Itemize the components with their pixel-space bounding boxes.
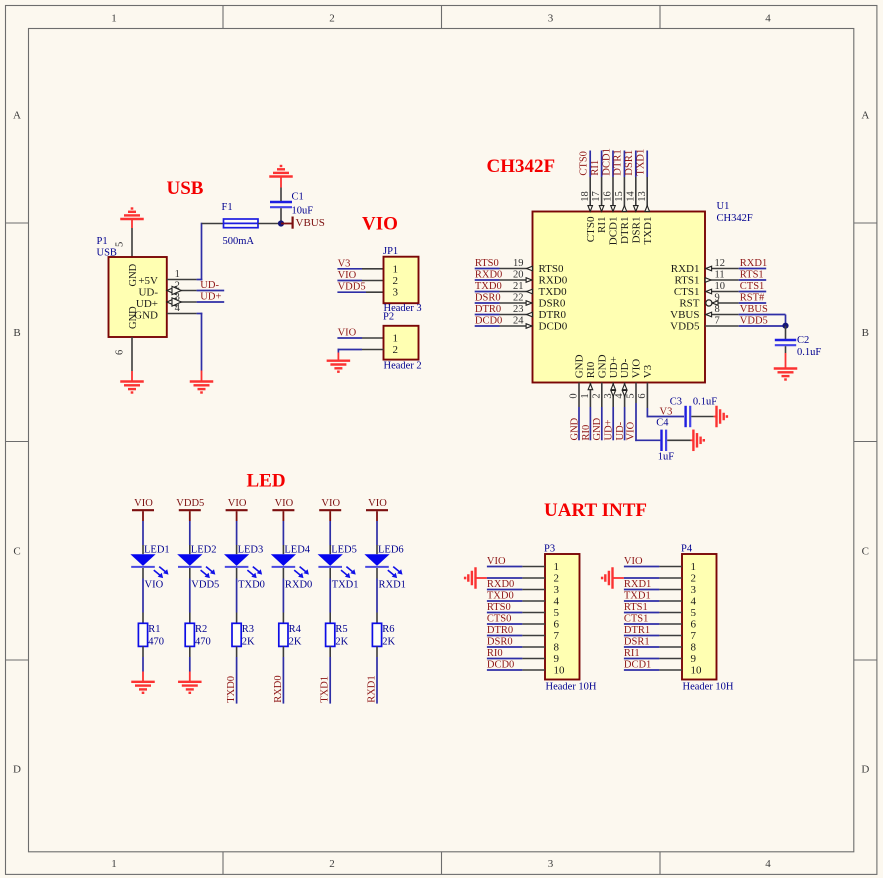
svg-text:11: 11: [715, 270, 725, 281]
svg-text:UD-: UD-: [619, 358, 631, 378]
svg-text:17: 17: [591, 191, 602, 202]
svg-text:3: 3: [554, 584, 560, 596]
wire LED3 to R3: [236, 568, 238, 579]
wire VIO to LED6: [376, 521, 378, 545]
svg-text:VIO: VIO: [368, 498, 387, 509]
svg-text:5: 5: [554, 607, 560, 619]
svg-text:R5: R5: [335, 624, 347, 635]
svg-text:UD+: UD+: [608, 356, 620, 378]
svg-text:DCD0: DCD0: [487, 659, 514, 670]
svg-text:RXD0: RXD0: [539, 275, 568, 287]
svg-text:RTS0: RTS0: [487, 602, 511, 613]
svg-text:CTS1: CTS1: [740, 281, 765, 292]
svg-text:V3: V3: [642, 364, 654, 378]
svg-text:1: 1: [691, 561, 697, 573]
svg-text:RI1: RI1: [590, 160, 601, 176]
svg-text:6: 6: [114, 350, 125, 355]
svg-text:1uF: 1uF: [658, 451, 675, 462]
svg-text:RTS1: RTS1: [674, 275, 699, 287]
svg-text:RI0: RI0: [585, 361, 597, 378]
svg-text:CTS0: CTS0: [579, 151, 590, 176]
svg-text:TXD0: TXD0: [238, 580, 265, 591]
svg-text:D: D: [861, 763, 869, 775]
svg-text:VIO: VIO: [487, 556, 506, 567]
svg-text:DSR0: DSR0: [475, 292, 501, 303]
svg-text:0.1uF: 0.1uF: [693, 397, 717, 408]
svg-text:6: 6: [637, 393, 648, 398]
svg-text:5: 5: [114, 242, 125, 247]
svg-text:VIO: VIO: [625, 421, 636, 440]
svg-text:CTS0: CTS0: [585, 216, 597, 242]
svg-text:3: 3: [175, 292, 180, 303]
svg-text:7: 7: [554, 630, 560, 642]
svg-text:C: C: [13, 545, 20, 557]
svg-text:2: 2: [393, 344, 399, 356]
svg-text:14: 14: [625, 191, 636, 202]
svg-text:RXD0: RXD0: [285, 580, 312, 591]
svg-text:UD+: UD+: [136, 298, 158, 310]
svg-text:DCD1: DCD1: [601, 148, 612, 175]
svg-text:4: 4: [765, 13, 771, 25]
svg-text:2: 2: [329, 13, 335, 25]
svg-text:22: 22: [513, 293, 524, 304]
svg-text:7: 7: [715, 316, 720, 327]
svg-text:1: 1: [175, 269, 180, 280]
svg-text:P1: P1: [97, 236, 108, 247]
svg-text:4: 4: [765, 858, 771, 870]
capacitor C1 10uF: [270, 201, 292, 203]
svg-text:2: 2: [591, 393, 602, 398]
wire VIO to JP1.2: [337, 280, 362, 282]
wire VIO to C4: [635, 439, 660, 441]
svg-text:GND: GND: [569, 417, 580, 440]
wire VBUS pin8 corner down to VDD5 node: [785, 315, 787, 326]
svg-text:12: 12: [715, 258, 726, 269]
wire VIO to LED3: [236, 521, 238, 545]
svg-text:3: 3: [691, 584, 697, 596]
svg-text:21: 21: [513, 281, 524, 292]
svg-text:9: 9: [691, 653, 697, 665]
svg-text:RI1: RI1: [624, 648, 640, 659]
svg-text:1: 1: [111, 858, 117, 870]
svg-text:7: 7: [691, 630, 697, 642]
svg-text:TXD1: TXD1: [642, 217, 654, 245]
svg-text:2: 2: [691, 573, 697, 585]
P1 pin 3 wire UD+: [167, 301, 197, 303]
svg-text:R2: R2: [195, 624, 207, 635]
power port VBUS: [281, 223, 292, 225]
svg-text:TXD0: TXD0: [539, 286, 568, 298]
capacitor C3 0.1uF: [684, 406, 686, 427]
svg-text:VIO: VIO: [631, 359, 643, 379]
svg-text:8: 8: [715, 304, 720, 315]
wire below R1: [142, 646, 144, 657]
ground below C2: [785, 353, 787, 369]
svg-text:470: 470: [195, 636, 211, 647]
svg-text:RST: RST: [679, 298, 699, 310]
svg-text:1: 1: [111, 13, 117, 25]
svg-text:B: B: [862, 327, 869, 339]
svg-text:LED5: LED5: [331, 544, 357, 555]
svg-text:DTR1: DTR1: [613, 149, 624, 175]
svg-text:DTR1: DTR1: [624, 625, 650, 636]
svg-text:10: 10: [554, 665, 566, 677]
svg-text:1: 1: [393, 263, 399, 275]
ground at P1 pin 4: [190, 380, 214, 382]
wire VDD5 to LED2: [189, 521, 191, 545]
svg-text:+5V: +5V: [138, 275, 158, 287]
svg-text:6: 6: [691, 619, 697, 631]
svg-text:RTS1: RTS1: [624, 602, 648, 613]
svg-text:C2: C2: [797, 335, 809, 346]
svg-text:LED: LED: [247, 471, 286, 492]
svg-text:RXD1: RXD1: [379, 580, 406, 591]
svg-text:VBUS: VBUS: [670, 309, 699, 321]
svg-text:VIO: VIO: [228, 498, 247, 509]
svg-text:RI0: RI0: [581, 425, 592, 441]
svg-text:2: 2: [329, 858, 335, 870]
svg-text:DTR1: DTR1: [619, 217, 631, 245]
svg-text:DCD0: DCD0: [539, 321, 568, 333]
wire VIO to LED4: [282, 521, 284, 545]
svg-text:4: 4: [691, 596, 697, 608]
svg-text:1: 1: [580, 393, 591, 398]
svg-text:V3: V3: [338, 258, 351, 269]
svg-text:470: 470: [148, 636, 164, 647]
svg-text:RST#: RST#: [740, 293, 765, 304]
wire below R2: [189, 646, 191, 657]
svg-text:1: 1: [393, 333, 399, 345]
svg-text:RTS1: RTS1: [740, 270, 764, 281]
svg-text:2K: 2K: [382, 636, 395, 647]
svg-text:0: 0: [569, 393, 580, 398]
svg-text:19: 19: [513, 258, 524, 269]
resistor R2 470: [185, 623, 194, 646]
wire VDD5 to JP1.3: [337, 291, 366, 293]
ground at P3 pin 2: [474, 567, 476, 589]
svg-text:CTS1: CTS1: [674, 286, 700, 298]
ground below R1: [131, 681, 155, 683]
svg-text:2K: 2K: [242, 636, 255, 647]
svg-text:VDD5: VDD5: [670, 321, 700, 333]
svg-text:3: 3: [548, 13, 554, 25]
svg-text:UD-: UD-: [138, 287, 158, 299]
svg-text:C4: C4: [656, 417, 669, 428]
svg-text:CTS0: CTS0: [487, 613, 512, 624]
svg-text:F1: F1: [222, 202, 233, 213]
svg-text:9: 9: [554, 653, 560, 665]
svg-text:1: 1: [554, 561, 560, 573]
capacitor C4 1uF: [660, 430, 662, 451]
svg-text:VBUS: VBUS: [296, 217, 325, 229]
svg-text:TXD0: TXD0: [226, 676, 237, 703]
svg-text:DSR1: DSR1: [624, 636, 650, 647]
svg-text:3: 3: [393, 287, 399, 299]
svg-text:2: 2: [554, 573, 560, 585]
svg-text:2K: 2K: [289, 636, 302, 647]
svg-text:P4: P4: [681, 543, 693, 554]
svg-text:VIO: VIO: [338, 327, 357, 338]
svg-text:DTR0: DTR0: [539, 309, 567, 321]
svg-text:GND: GND: [574, 354, 586, 378]
ground below R2: [178, 681, 202, 683]
wire below R3: [236, 646, 238, 657]
svg-text:VDD5: VDD5: [740, 316, 768, 327]
svg-text:RTS0: RTS0: [475, 258, 499, 269]
svg-text:A: A: [13, 109, 21, 121]
wire LED5 to R5: [329, 568, 331, 579]
svg-text:USB: USB: [167, 178, 204, 199]
svg-text:VDD5: VDD5: [176, 498, 204, 509]
svg-text:TXD1: TXD1: [624, 590, 651, 601]
svg-text:DSR0: DSR0: [487, 636, 513, 647]
svg-text:RI1: RI1: [596, 217, 608, 234]
svg-text:UART INTF: UART INTF: [544, 500, 647, 521]
svg-text:Header 10H: Header 10H: [546, 681, 597, 692]
wire LED4 to R4: [282, 568, 284, 579]
svg-text:500mA: 500mA: [223, 236, 255, 247]
svg-text:R3: R3: [242, 624, 254, 635]
svg-text:Header 10H: Header 10H: [683, 681, 734, 692]
svg-text:DSR0: DSR0: [539, 298, 566, 310]
svg-text:CH342F: CH342F: [487, 156, 556, 177]
wire F1 to VBUS junction: [258, 223, 279, 225]
resistor R5 2K: [326, 623, 335, 646]
svg-text:4: 4: [554, 596, 560, 608]
svg-text:2: 2: [175, 281, 180, 292]
svg-text:A: A: [861, 109, 869, 121]
svg-text:LED6: LED6: [378, 544, 404, 555]
svg-text:5: 5: [691, 607, 697, 619]
svg-text:24: 24: [513, 316, 524, 327]
wire P2 pin 2 to ground: [362, 349, 384, 351]
wire below R5: [329, 646, 331, 657]
ground right of C3: [714, 416, 717, 418]
svg-text:2K: 2K: [335, 636, 348, 647]
svg-text:TXD0: TXD0: [475, 281, 502, 292]
svg-text:16: 16: [603, 191, 614, 202]
ground at P2 pin 2: [327, 360, 351, 362]
svg-text:JP1: JP1: [383, 246, 398, 257]
svg-text:U1: U1: [717, 201, 730, 212]
svg-text:DCD0: DCD0: [475, 315, 502, 326]
svg-text:10uF: 10uF: [292, 206, 314, 217]
svg-text:8: 8: [691, 642, 697, 654]
svg-text:P2: P2: [383, 311, 394, 322]
svg-text:VBUS: VBUS: [740, 304, 768, 315]
wire below R4: [282, 646, 284, 657]
svg-text:C3: C3: [670, 397, 682, 408]
svg-text:CH342F: CH342F: [717, 213, 753, 224]
wire VIO to P2.1: [337, 337, 362, 339]
svg-text:VDD5: VDD5: [338, 282, 366, 293]
svg-text:LED1: LED1: [144, 544, 170, 555]
wire P1 pin5 to ground: [131, 228, 133, 257]
svg-text:4: 4: [175, 303, 181, 314]
svg-text:GND: GND: [134, 310, 158, 322]
ground at P4 pin 2: [611, 567, 613, 589]
svg-text:RXD1: RXD1: [740, 258, 767, 269]
svg-text:CTS1: CTS1: [624, 613, 649, 624]
resistor R3 2K: [232, 623, 241, 646]
svg-text:10: 10: [691, 665, 703, 677]
svg-text:D: D: [13, 763, 21, 775]
P1 pin 4 wire to ground: [167, 313, 197, 315]
svg-text:UD+: UD+: [200, 292, 221, 303]
svg-text:R1: R1: [148, 624, 160, 635]
svg-text:DCD1: DCD1: [624, 659, 651, 670]
svg-text:RXD1: RXD1: [367, 675, 378, 702]
svg-text:R4: R4: [289, 624, 302, 635]
svg-text:TXD1: TXD1: [332, 580, 359, 591]
svg-text:DSR1: DSR1: [630, 217, 642, 244]
resistor R1 470: [138, 623, 147, 646]
wire V3 to JP1.1: [337, 268, 362, 270]
wire V3 to C3: [647, 416, 684, 418]
svg-text:VIO: VIO: [275, 498, 294, 509]
resistor R6 2K: [372, 623, 381, 646]
svg-text:LED4: LED4: [284, 544, 310, 555]
wire LED6 to R6: [376, 568, 378, 579]
svg-text:VIO: VIO: [338, 270, 357, 281]
svg-text:GND: GND: [596, 354, 608, 378]
svg-text:UD+: UD+: [604, 419, 615, 440]
ground at P1 pin 6: [120, 380, 144, 382]
wire below R6: [376, 646, 378, 657]
svg-text:VIO: VIO: [145, 580, 164, 591]
svg-text:UD-: UD-: [200, 280, 219, 291]
svg-text:LED3: LED3: [238, 544, 264, 555]
wire LED2 to R2: [189, 568, 191, 579]
ground right of C4: [691, 439, 694, 441]
svg-text:23: 23: [513, 304, 524, 315]
capacitor C2 0.1uF: [785, 326, 787, 339]
svg-text:10: 10: [715, 281, 726, 292]
svg-text:GND: GND: [592, 417, 603, 440]
svg-text:3: 3: [548, 858, 554, 870]
svg-text:VIO: VIO: [134, 498, 153, 509]
P1 pin 1 wire to fuse F1: [167, 279, 197, 281]
svg-text:RTS0: RTS0: [539, 263, 565, 275]
P1 pin 6 wire to ground: [131, 337, 133, 371]
svg-text:Header 2: Header 2: [384, 361, 422, 372]
svg-text:C: C: [862, 545, 869, 557]
svg-text:RXD0: RXD0: [475, 269, 502, 280]
svg-text:LED2: LED2: [191, 544, 217, 555]
junction VDD5 node: [782, 323, 788, 329]
svg-text:5: 5: [626, 393, 637, 398]
svg-text:2: 2: [393, 275, 399, 287]
svg-text:RI0: RI0: [487, 648, 503, 659]
P1 pin 2 wire UD-: [167, 290, 197, 292]
svg-text:VIO: VIO: [362, 214, 398, 235]
svg-text:8: 8: [554, 642, 560, 654]
svg-text:18: 18: [580, 191, 591, 202]
svg-text:VIO: VIO: [321, 498, 340, 509]
svg-text:RXD0: RXD0: [487, 579, 514, 590]
svg-text:TXD1: TXD1: [320, 676, 331, 703]
svg-text:VIO: VIO: [624, 556, 643, 567]
svg-text:TXD0: TXD0: [487, 590, 514, 601]
svg-text:DSR1: DSR1: [624, 150, 635, 176]
svg-text:0.1uF: 0.1uF: [797, 347, 821, 358]
svg-text:RXD1: RXD1: [671, 263, 700, 275]
wire VIO to LED1: [142, 521, 144, 545]
svg-text:C1: C1: [292, 192, 304, 203]
ground above P1 pin 5: [120, 218, 144, 220]
ground above C1: [280, 177, 282, 188]
svg-text:B: B: [13, 327, 20, 339]
svg-text:R6: R6: [382, 624, 394, 635]
svg-text:RXD1: RXD1: [624, 579, 651, 590]
wire VIO to LED5: [329, 521, 331, 545]
svg-text:RXD0: RXD0: [273, 675, 284, 702]
junction VBUS node: [278, 220, 284, 226]
svg-text:TXD1: TXD1: [636, 149, 647, 176]
svg-text:15: 15: [614, 191, 625, 202]
svg-text:13: 13: [637, 191, 648, 202]
svg-text:6: 6: [554, 619, 560, 631]
svg-text:P3: P3: [544, 543, 555, 554]
wire LED1 to R1: [142, 568, 144, 579]
svg-text:DCD1: DCD1: [608, 217, 620, 246]
svg-text:VDD5: VDD5: [191, 580, 219, 591]
svg-text:DTR0: DTR0: [475, 304, 501, 315]
svg-text:20: 20: [513, 270, 524, 281]
resistor R4 2K: [279, 623, 288, 646]
svg-text:DTR0: DTR0: [487, 625, 513, 636]
